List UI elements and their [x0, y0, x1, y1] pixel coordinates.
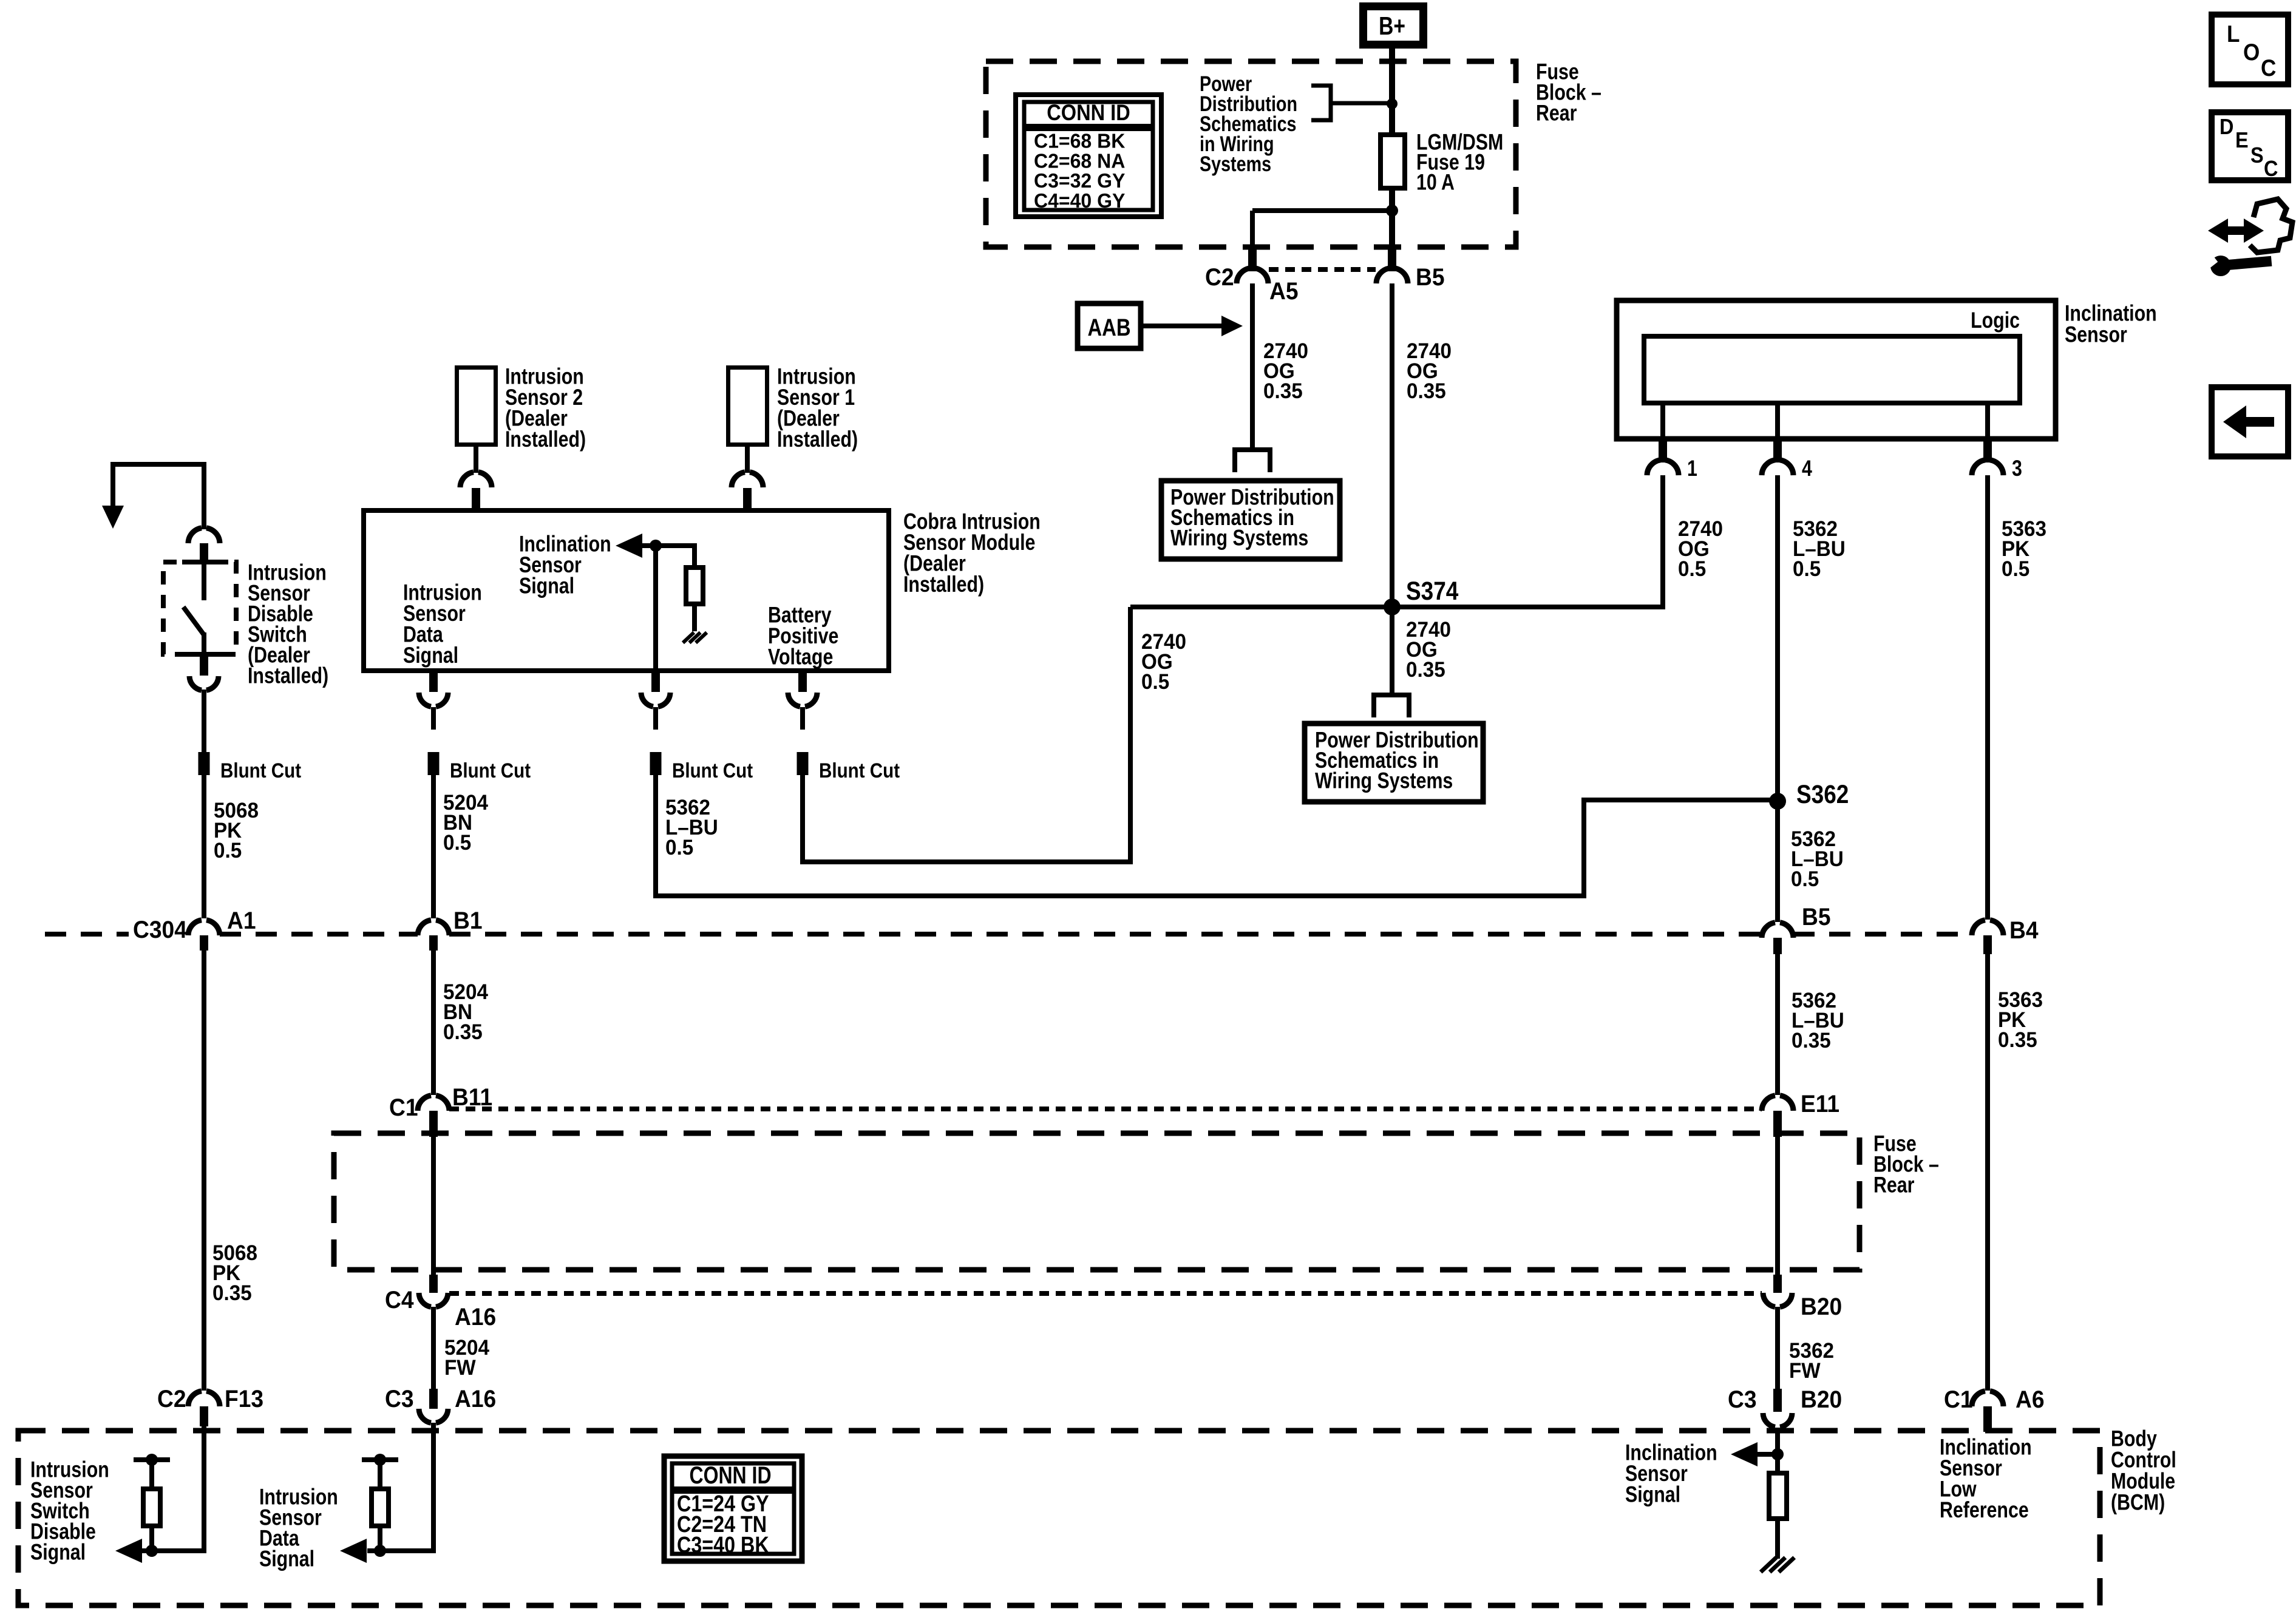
svg-text:C: C — [2264, 157, 2278, 181]
svg-text:0.35: 0.35 — [1263, 379, 1303, 403]
svg-text:O: O — [2243, 38, 2260, 65]
svg-text:0.5: 0.5 — [1141, 670, 1169, 694]
svg-text:0.35: 0.35 — [212, 1281, 252, 1305]
svg-text:C3: C3 — [385, 1386, 414, 1413]
svg-text:Blunt Cut: Blunt Cut — [672, 759, 753, 782]
svg-text:Wiring Systems: Wiring Systems — [1170, 526, 1308, 551]
svg-text:Signal: Signal — [519, 574, 574, 599]
svg-text:0.35: 0.35 — [1406, 658, 1445, 682]
svg-text:Installed): Installed) — [903, 572, 984, 597]
svg-text:0.35: 0.35 — [443, 1020, 483, 1044]
svg-text:Installed): Installed) — [248, 663, 328, 689]
svg-text:Wiring Systems: Wiring Systems — [1315, 768, 1453, 794]
svg-text:A16: A16 — [455, 1386, 496, 1413]
svg-text:A16: A16 — [455, 1304, 496, 1331]
svg-text:E11: E11 — [1801, 1091, 1839, 1118]
svg-text:Blunt Cut: Blunt Cut — [819, 759, 900, 782]
svg-text:0.35: 0.35 — [1998, 1028, 2037, 1052]
svg-text:B4: B4 — [2009, 917, 2039, 944]
svg-text:C1: C1 — [1944, 1386, 1973, 1414]
svg-text:B20: B20 — [1801, 1293, 1842, 1321]
svg-text:Sensor: Sensor — [2065, 322, 2127, 348]
svg-text:Signal: Signal — [30, 1540, 86, 1565]
svg-text:C4: C4 — [385, 1287, 414, 1314]
svg-text:B11: B11 — [452, 1084, 492, 1111]
svg-text:1: 1 — [1687, 456, 1697, 481]
svg-text:0.5: 0.5 — [1791, 867, 1819, 891]
svg-text:FW: FW — [444, 1356, 476, 1380]
svg-text:B5: B5 — [1802, 904, 1831, 931]
svg-text:L: L — [2227, 20, 2240, 47]
svg-text:0.35: 0.35 — [1407, 379, 1446, 403]
svg-text:FW: FW — [1789, 1359, 1821, 1383]
svg-text:Signal: Signal — [403, 643, 458, 668]
svg-text:C3: C3 — [1728, 1386, 1757, 1414]
svg-text:Blunt Cut: Blunt Cut — [220, 759, 301, 782]
svg-text:CONN ID: CONN ID — [689, 1462, 771, 1489]
svg-text:Rear: Rear — [1873, 1173, 1914, 1198]
svg-text:A1: A1 — [227, 907, 256, 935]
svg-text:Rear: Rear — [1536, 101, 1577, 126]
svg-text:0.5: 0.5 — [2002, 557, 2029, 581]
svg-text:B5: B5 — [1416, 264, 1445, 291]
svg-text:F13: F13 — [225, 1386, 263, 1413]
svg-text:Blunt Cut: Blunt Cut — [450, 759, 531, 782]
svg-text:Systems: Systems — [1200, 152, 1271, 175]
svg-text:S362: S362 — [1796, 780, 1849, 808]
svg-text:10 A: 10 A — [1416, 170, 1455, 195]
svg-text:C1=68 BK: C1=68 BK — [1034, 130, 1126, 152]
svg-text:B1: B1 — [453, 907, 483, 935]
svg-text:C: C — [2261, 54, 2276, 81]
svg-text:S374: S374 — [1406, 577, 1459, 605]
svg-text:D: D — [2220, 115, 2233, 139]
svg-text:4: 4 — [1802, 456, 1812, 481]
svg-text:C3=40 BK: C3=40 BK — [677, 1533, 769, 1558]
svg-text:CONN ID: CONN ID — [1047, 100, 1130, 125]
svg-text:S: S — [2250, 143, 2264, 168]
svg-text:C2: C2 — [157, 1386, 186, 1413]
svg-text:Installed): Installed) — [777, 427, 858, 452]
svg-text:B20: B20 — [1801, 1386, 1842, 1414]
svg-text:Installed): Installed) — [505, 427, 586, 452]
svg-text:0.5: 0.5 — [214, 839, 242, 863]
svg-text:A5: A5 — [1269, 278, 1299, 305]
svg-text:C1: C1 — [389, 1094, 418, 1122]
svg-text:0.5: 0.5 — [1678, 557, 1706, 581]
svg-text:Reference: Reference — [1940, 1497, 2029, 1523]
svg-text:C2: C2 — [1205, 264, 1234, 291]
svg-text:C304: C304 — [133, 917, 187, 944]
svg-text:A6: A6 — [2016, 1386, 2045, 1414]
svg-text:C4=40 GY: C4=40 GY — [1034, 189, 1126, 212]
svg-text:Voltage: Voltage — [768, 645, 833, 670]
svg-text:E: E — [2235, 128, 2249, 152]
svg-text:Signal: Signal — [259, 1547, 314, 1572]
svg-text:B+: B+ — [1379, 13, 1405, 41]
svg-text:Signal: Signal — [1625, 1482, 1680, 1508]
svg-text:0.5: 0.5 — [665, 836, 693, 859]
svg-text:Logic: Logic — [1971, 308, 2020, 333]
svg-text:3: 3 — [2012, 456, 2022, 481]
svg-text:0.35: 0.35 — [1792, 1029, 1831, 1052]
svg-text:C2=68 NA: C2=68 NA — [1034, 150, 1125, 172]
svg-text:AAB: AAB — [1087, 314, 1130, 341]
svg-text:0.5: 0.5 — [443, 831, 471, 855]
svg-text:0.5: 0.5 — [1793, 557, 1821, 581]
svg-text:C3=32 GY: C3=32 GY — [1034, 170, 1126, 192]
svg-text:(BCM): (BCM) — [2111, 1490, 2165, 1516]
